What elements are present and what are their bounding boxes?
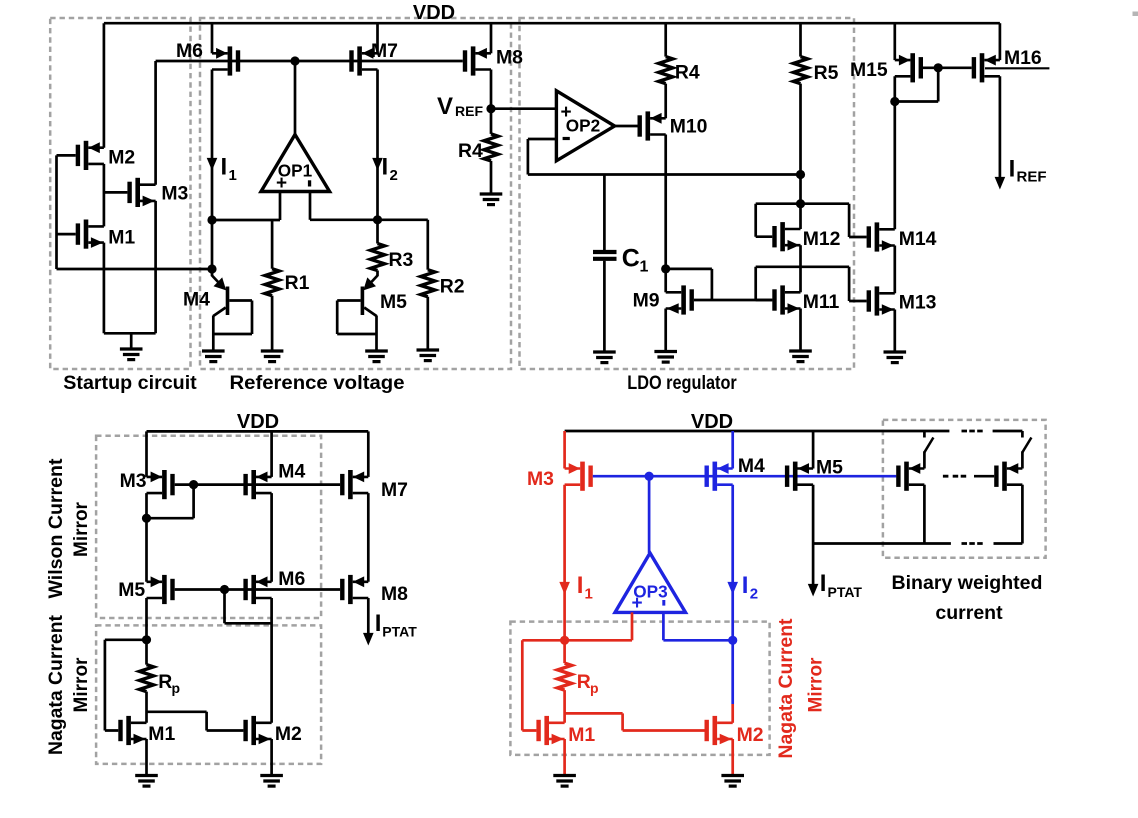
transistor M5 (Wilson PMOS): [147, 575, 175, 604]
arrow I1 (red): [559, 582, 570, 595]
node: Rp top: [142, 635, 151, 644]
transistor M4 (Wilson PMOS): [243, 470, 271, 499]
svg-text:Reference voltage: Reference voltage: [230, 373, 405, 394]
transistor M6 (PMOS): [212, 46, 240, 75]
resistor R3: [371, 244, 385, 271]
svg-text:Mirror: Mirror: [71, 657, 92, 713]
ground (M9): [654, 352, 677, 363]
transistor M3 (red PMOS): [565, 462, 593, 491]
svg-text:p: p: [172, 680, 181, 696]
ground (M11): [789, 351, 812, 362]
svg-text:+: +: [631, 593, 642, 614]
transistor M9 (NMOS): [666, 285, 694, 314]
wire: M2 source (red): [731, 739, 734, 775]
wire: M13 source to ground: [893, 310, 896, 353]
svg-text:p: p: [590, 680, 599, 696]
wire: M3 diode loop: [147, 485, 194, 519]
transistor M16 (PMOS): [972, 53, 1000, 82]
transistor M8 (PMOS): [463, 46, 491, 75]
wire: OP2 - feedback: [528, 139, 801, 175]
ground (red M1): [553, 776, 576, 787]
VDD rail (Wilson): [147, 430, 369, 433]
svg-text:M4: M4: [738, 455, 765, 477]
wire: VREF to OP2+: [491, 107, 556, 110]
arrow IPTAT: [363, 633, 374, 646]
svg-text:M6: M6: [278, 568, 305, 590]
svg-text:I: I: [577, 572, 584, 599]
transistor M1 (Nagata NMOS): [118, 716, 146, 745]
transistor M4 (PNP BJT): [212, 269, 252, 351]
ground (M13): [884, 352, 907, 363]
transistor M5 (black PMOS): [785, 462, 813, 491]
arrow IPTAT (right circuit): [808, 584, 819, 597]
Nagata current mirror dashed box (black circuit): [96, 625, 321, 764]
resistor R5: [794, 57, 808, 84]
wire: binary cell 1 drain: [923, 485, 926, 544]
svg-text:I: I: [1009, 156, 1016, 183]
svg-text:M8: M8: [496, 47, 523, 69]
wire: startup to bandgap core: [57, 268, 213, 271]
wire: M11 gate node rail: [756, 267, 867, 301]
wire: I2 branch (M7 drain down): [376, 70, 379, 220]
wire: M10 drain down: [664, 135, 667, 269]
wire: M9 gate bus to M11: [694, 299, 772, 302]
node: I2 / OP1- tap: [373, 215, 382, 224]
wire: OP1 output to gate bus: [294, 61, 297, 135]
svg-text:Mirror: Mirror: [806, 657, 827, 713]
wire: C1 to ground: [603, 261, 606, 352]
transistor M14 (NMOS): [867, 222, 895, 251]
wire: binary cell 2 gate lead: [974, 475, 994, 478]
wire: M4 drain to M6 source: [270, 493, 273, 582]
wire: M7 drain to M8 source: [367, 493, 370, 582]
svg-text:M12: M12: [803, 228, 841, 250]
wire: M1 source to ground: [145, 739, 148, 776]
arrow I1: [207, 158, 218, 171]
wire: M1 gate loop: [105, 640, 147, 731]
wire: Rp leads (red): [563, 640, 566, 723]
svg-text:Startup circuit: Startup circuit: [63, 373, 197, 394]
resistor R4 (ref): [484, 134, 498, 161]
svg-text:I: I: [221, 154, 228, 181]
wire: R4 hanger (ref): [490, 109, 493, 134]
svg-text:I: I: [382, 154, 389, 181]
svg-text:REF: REF: [1017, 169, 1047, 186]
svg-text:M13: M13: [899, 292, 937, 314]
wire: M1 source drop: [103, 243, 106, 334]
ground (M4): [202, 351, 225, 362]
transistor M3 (Wilson PMOS): [147, 470, 175, 499]
svg-text:VDD: VDD: [691, 411, 733, 433]
Wilson current mirror dashed box: [96, 436, 321, 618]
wire: M1 drain to M2 gate (red): [565, 713, 705, 730]
svg-text:M5: M5: [816, 457, 843, 479]
node: I1 / OP1+ tap: [207, 215, 216, 224]
wire: M3 VDD riser (red): [563, 431, 566, 469]
svg-text:M2: M2: [275, 723, 302, 745]
ground (M1 Nagata): [135, 776, 158, 787]
svg-text:Mirror: Mirror: [71, 501, 92, 557]
wire: M3 VDD riser: [145, 431, 148, 477]
svg-text:M2: M2: [108, 147, 135, 169]
reference voltage dashed box: [200, 18, 511, 369]
op-amp OP3 (blue): [615, 553, 686, 612]
arrow IREF: [995, 177, 1006, 190]
wire: M15 VDD riser: [893, 23, 896, 60]
svg-text:R5: R5: [814, 62, 839, 84]
svg-text:1: 1: [229, 167, 237, 184]
wire: R5 down to M12: [799, 84, 802, 229]
svg-text:M1: M1: [568, 724, 595, 746]
transistor M4 (blue PMOS): [705, 462, 733, 491]
svg-text:Nagata Current: Nagata Current: [776, 618, 797, 759]
svg-text:M5: M5: [380, 291, 407, 313]
svg-text:V: V: [437, 93, 453, 120]
wire: OP3 + input (red): [565, 612, 632, 640]
op-amp OP2: [556, 91, 614, 161]
resistor Rp (black): [140, 665, 154, 692]
arrow I2: [372, 158, 383, 171]
svg-text:Nagata Current: Nagata Current: [46, 614, 67, 755]
wire: M2 source to ground: [270, 739, 273, 776]
transistor M13 (NMOS): [867, 286, 895, 315]
svg-text:M7: M7: [381, 479, 408, 501]
VDD rail (top): [104, 22, 1000, 25]
wire: OP1 - to R2 branch: [310, 218, 428, 221]
ground (M5): [365, 351, 388, 362]
wire: M1 gate lead: [57, 233, 76, 236]
svg-text:M4: M4: [183, 289, 210, 311]
wire: M4 VDD riser: [270, 431, 273, 477]
wire: M8 drain IPTAT: [367, 598, 370, 638]
wire: M11 source to ground: [799, 309, 802, 352]
wire: M5 drain IPTAT (black): [812, 485, 815, 589]
resistor R2: [421, 270, 435, 297]
wire: M9 drain stub up: [664, 269, 667, 292]
wire: M4 drain I2 (blue): [731, 485, 734, 704]
svg-text:M11: M11: [803, 291, 840, 313]
wire: OP1 + input stub: [279, 192, 282, 221]
wire: M3 drain to M5 source: [145, 493, 148, 582]
wire: R2 branch: [426, 220, 429, 270]
svg-text:M5: M5: [118, 579, 145, 601]
node: feedback tap on R5 line: [796, 170, 805, 179]
wire: M1 source (red): [563, 739, 566, 775]
resistor R4 (LDO): [659, 57, 673, 84]
wire: M2 drain to M1 drain column: [103, 164, 106, 227]
wire: R4 to M10 source: [664, 84, 667, 119]
svg-text:M16: M16: [1004, 47, 1042, 69]
ellipsis on binary bus: [962, 542, 983, 545]
svg-text:I: I: [375, 610, 382, 637]
wire: OP1 + to I1 node: [212, 219, 280, 222]
svg-text:1: 1: [585, 586, 593, 603]
wire: M16 drain IREF: [999, 76, 1002, 181]
transistor M2 (startup PMOS): [76, 141, 104, 170]
resistor Rp (red): [558, 663, 572, 690]
ground (C1): [593, 352, 616, 363]
wire: startup gate column: [55, 155, 58, 269]
wire: M15-M16 gate line: [923, 66, 972, 69]
wire: OP2 output: [615, 125, 638, 128]
transistor M2 (Nagata NMOS): [243, 716, 271, 745]
svg-text:R: R: [577, 671, 591, 693]
wire: C1 hanger: [603, 175, 606, 251]
wire: startup ground bus: [104, 332, 156, 335]
label OP2 minus: [563, 137, 570, 140]
svg-text:PTAT: PTAT: [828, 584, 863, 600]
svg-text:M9: M9: [633, 290, 660, 312]
svg-text:R1: R1: [285, 272, 310, 294]
wire: Rp leads: [145, 640, 148, 723]
switch (binary cell 1): [924, 431, 933, 469]
wire: M5 drain down to Rp node: [145, 598, 148, 640]
svg-text:VDD: VDD: [413, 2, 455, 24]
svg-text:current: current: [935, 602, 1003, 624]
transistor binary cell 2 (PMOS): [994, 462, 1022, 491]
Nagata current mirror dashed box (red circuit): [510, 622, 769, 755]
svg-text:M10: M10: [670, 116, 708, 138]
wire: R2 to ground: [426, 297, 429, 350]
wire: M2 drain link (red): [731, 704, 734, 723]
wire: OP3 output riser (blue): [648, 476, 651, 553]
resistor R1: [265, 269, 279, 296]
node: M10 drain / M9: [661, 264, 670, 273]
svg-text:M6: M6: [176, 40, 203, 62]
wire: M6 drain down to M2: [270, 598, 273, 723]
svg-text:M7: M7: [371, 40, 398, 62]
svg-text:2: 2: [390, 167, 398, 184]
svg-text:M4: M4: [278, 461, 305, 483]
wire: M16 VDD riser: [999, 23, 1002, 60]
svg-text:M15: M15: [850, 59, 888, 81]
svg-text:R4: R4: [675, 62, 700, 84]
wire: M4 VDD riser (blue): [731, 431, 734, 469]
startup circuit dashed box: [50, 18, 190, 369]
stray gray mark (top-right): [1133, 12, 1138, 17]
svg-text:M8: M8: [381, 583, 408, 605]
node: M15 gate junction: [934, 63, 943, 72]
svg-text:M2: M2: [737, 724, 764, 746]
wire: gate bus (blue): [593, 475, 897, 478]
transistor M7 (Wilson PMOS): [340, 470, 368, 499]
ground (startup): [120, 349, 143, 360]
node: I1 / startup junction: [207, 264, 216, 273]
svg-text:M3: M3: [527, 468, 554, 490]
wire: M1 drain to M2 gate: [147, 712, 244, 731]
svg-text:M3: M3: [120, 470, 147, 492]
arrow I2 (blue): [727, 582, 738, 595]
transistor M1 (startup NMOS): [76, 220, 104, 249]
svg-text:VDD: VDD: [237, 411, 279, 433]
wire: M6 diode loop: [225, 590, 272, 624]
wire: gate bus M5-M6-M8: [175, 588, 340, 591]
ground (R4 ref): [480, 194, 503, 205]
svg-text:2: 2: [750, 586, 758, 603]
svg-text:1: 1: [640, 259, 649, 276]
wire: M3 gate tap: [104, 191, 128, 194]
transistor M11 (NMOS): [772, 285, 800, 314]
node: I1 / OP3+ (red): [560, 636, 569, 645]
node: M12/M14 gate node: [796, 199, 805, 208]
wire: M12 gate loop: [756, 204, 801, 237]
wire: R4 LDO riser: [664, 23, 667, 56]
wire: R4 to ground: [490, 161, 493, 194]
svg-text:+: +: [276, 173, 287, 194]
svg-text:M3: M3: [161, 183, 188, 205]
svg-text:Wilson Current: Wilson Current: [46, 458, 67, 599]
ground (M2 Nagata): [260, 776, 283, 787]
wire: M7 VDD riser: [367, 431, 370, 477]
wire: OP3 - input (blue): [663, 612, 732, 640]
transistor M1 (red NMOS): [536, 716, 564, 745]
transistor M12 (NMOS): [772, 222, 800, 251]
svg-text:M1: M1: [108, 227, 135, 249]
node: OP3 output on gate bus: [645, 472, 654, 481]
label OP1 minus: [308, 180, 311, 186]
transistor M3 (startup NMOS): [127, 178, 155, 207]
wire: R1 to ground: [271, 296, 274, 351]
svg-text:LDO regulator: LDO regulator: [627, 373, 737, 394]
wire: M8 VDD riser: [490, 23, 493, 53]
capacitor C1: [593, 252, 617, 259]
wire: gate bus M6-M7-M8: [156, 60, 463, 63]
wire: M1 gate loop (red): [522, 640, 564, 730]
wire: binary current bus: [813, 542, 1022, 545]
transistor M2 (red NMOS): [705, 716, 733, 745]
wire: I1 branch (M6 drain down): [211, 70, 214, 270]
transistor M7 (PMOS): [349, 46, 377, 75]
ellipsis between binary cells: [943, 475, 966, 478]
svg-text:R: R: [158, 671, 172, 693]
svg-text:M14: M14: [899, 228, 937, 250]
wire: M5 VDD riser (black): [812, 431, 815, 469]
wire: M2 gate lead: [57, 154, 76, 157]
node: M15 drain: [890, 97, 899, 106]
node: M3 gate: [189, 480, 198, 489]
node: OP1 output on gate bus: [290, 56, 299, 65]
svg-text:R3: R3: [389, 249, 414, 271]
node VREF: [486, 104, 495, 113]
wire: M6 VDD riser: [211, 23, 214, 53]
wire: M7 VDD riser: [376, 23, 379, 53]
svg-text:C: C: [622, 245, 640, 273]
wire: M3 drain I1 (red): [563, 485, 566, 641]
transistor M6 (Wilson PMOS): [243, 575, 271, 604]
svg-text:M1: M1: [148, 723, 175, 745]
ellipsis on VDD rail: [962, 430, 983, 433]
wire: M12 source to M11 drain: [799, 245, 802, 292]
wire: M8 drain to VREF node: [490, 70, 493, 109]
wire: M15 diode loop: [895, 68, 938, 102]
svg-text:I: I: [742, 572, 749, 599]
op-amp OP1: [261, 135, 330, 192]
label OP3 minus: [662, 600, 665, 606]
wire: startup ground lead: [130, 333, 133, 349]
ground (red M2): [721, 776, 744, 787]
wire: gate bus M3-M4-M7: [175, 483, 340, 486]
wire: OP1 - input stub: [309, 192, 312, 220]
transistor M10 (PMOS): [638, 111, 666, 140]
wire: M14 gate feed: [801, 204, 867, 237]
wire: M9 source to ground: [664, 309, 667, 352]
wire: M14 source to M13 drain: [893, 246, 896, 294]
wire: M9 diode loop: [666, 269, 712, 300]
node: M6 gate: [220, 585, 229, 594]
svg-text:R4: R4: [458, 140, 483, 162]
svg-text:Binary weighted: Binary weighted: [892, 572, 1043, 594]
ground (R2): [417, 350, 440, 361]
Binary weighted current dashed box: [883, 420, 1046, 558]
transistor binary cell 1 (PMOS): [896, 462, 924, 491]
transistor M15 (PMOS): [895, 53, 923, 82]
svg-text:R2: R2: [440, 276, 465, 298]
svg-text:REF: REF: [455, 103, 483, 119]
svg-text:PTAT: PTAT: [382, 624, 417, 640]
VDD rail (right circuit): [565, 430, 1023, 433]
node: M3 drain: [142, 514, 151, 523]
wire: binary cell 2 drain: [1021, 485, 1024, 544]
svg-text:I: I: [820, 570, 827, 597]
wire: M3 drain riser to gate bus: [154, 61, 157, 185]
svg-text:+: +: [560, 102, 571, 123]
transistor M8 (Wilson PMOS): [340, 575, 368, 604]
wire: R3 hanger: [376, 220, 379, 244]
wire: M15 drain to M14 drain: [893, 76, 896, 229]
transistor M5 (PNP BJT): [337, 271, 377, 352]
node: I2 / OP3- (blue): [728, 636, 737, 645]
switch (binary cell 2): [1022, 431, 1031, 469]
ground (R1): [261, 351, 284, 362]
wire: M3 source drop: [154, 201, 157, 333]
LDO regulator dashed box: [520, 18, 855, 369]
wire: stray lead right of M16: [985, 67, 1049, 69]
wire: R1 hanger: [271, 220, 274, 269]
wire: R5 riser: [799, 23, 802, 56]
wire: startup VDD riser: [103, 23, 106, 148]
